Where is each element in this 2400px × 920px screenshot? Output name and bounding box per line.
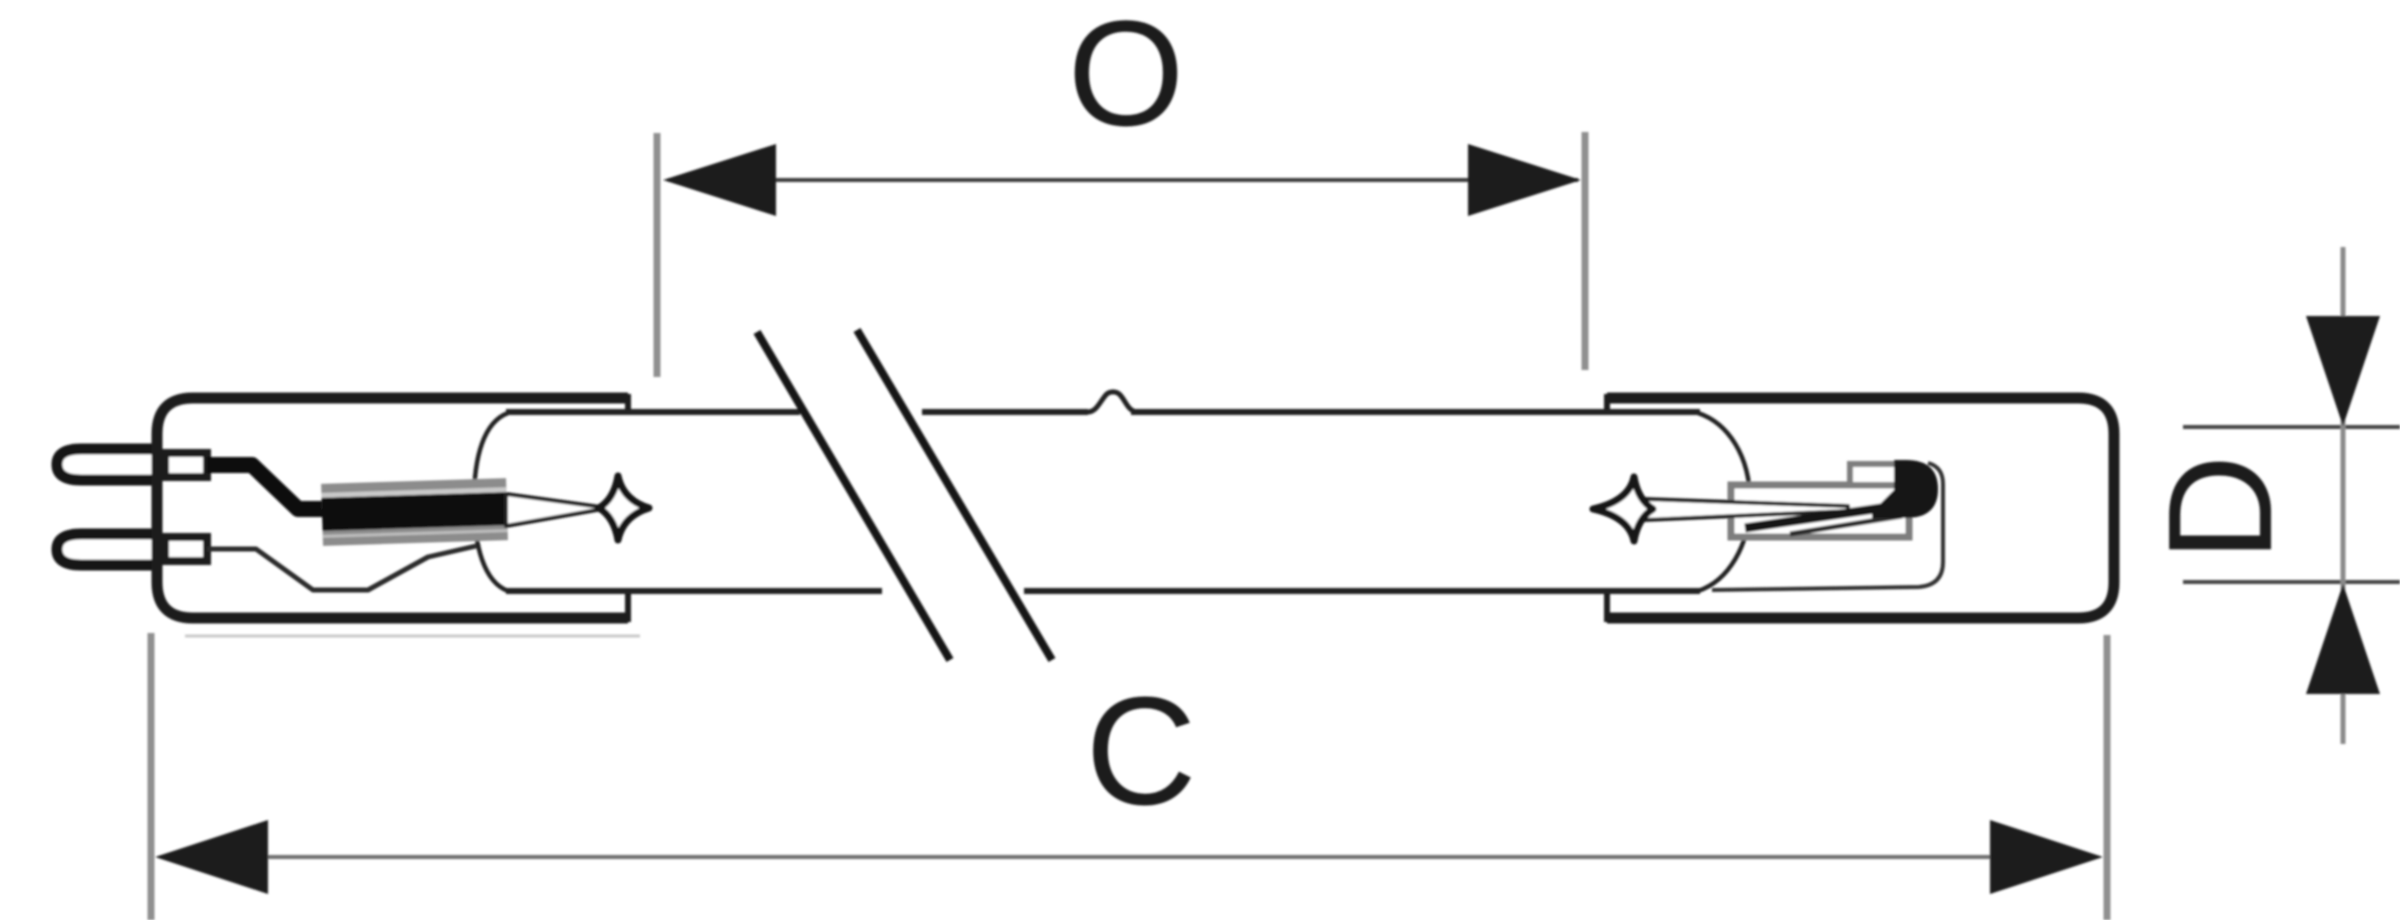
right electrode black tip — [1872, 460, 1938, 518]
left electrode coil — [321, 478, 508, 546]
left lead wire thick — [207, 465, 330, 509]
exhaust tip bump — [1088, 392, 1136, 412]
break line 1 — [757, 332, 950, 660]
pin seal rect lower — [165, 537, 207, 561]
tube top line left segment — [506, 409, 800, 415]
right pinch outline — [1712, 463, 1943, 590]
D dimension bottom line — [2183, 580, 2400, 584]
right electrode star — [1593, 477, 1653, 541]
C arrow left — [155, 820, 268, 894]
O extension line right — [1582, 132, 1589, 370]
C extension line left — [148, 633, 155, 920]
break line 2 — [857, 330, 1052, 660]
right cap outline — [1607, 398, 2114, 618]
D dimension top line — [2183, 425, 2400, 429]
left taper lines — [506, 494, 608, 526]
inner tube right dome — [1698, 413, 1750, 591]
C dimension line — [160, 855, 2098, 859]
left cap outline — [157, 398, 628, 618]
left support wire thin — [207, 546, 476, 590]
svg-text:C: C — [1085, 665, 1196, 837]
svg-text:D: D — [2138, 455, 2303, 562]
pin lower (left base) — [57, 534, 160, 565]
right cap top step — [1604, 394, 1610, 412]
C arrow right — [1990, 820, 2103, 894]
left cap bottom step — [625, 591, 631, 622]
pin upper (left base) — [57, 449, 160, 480]
right taper lines — [1645, 499, 1848, 520]
O extension line left — [654, 133, 661, 377]
right cap bottom step — [1604, 591, 1610, 622]
tube top line mid segment — [922, 409, 1088, 415]
svg-text:O: O — [1068, 0, 1185, 157]
D arrow top — [2306, 316, 2380, 426]
tube top line right segment — [1131, 409, 1700, 415]
O arrow left — [663, 144, 776, 216]
D vertical line — [2341, 247, 2346, 744]
tube bottom line left segment — [506, 588, 882, 594]
right crimp wire streaks — [1745, 507, 1888, 528]
C extension line right — [2104, 635, 2111, 920]
D arrow bottom — [2306, 584, 2380, 694]
tube bottom line right segment — [1024, 588, 1700, 594]
O arrow right — [1468, 144, 1581, 216]
inner tube left dome — [474, 413, 508, 591]
left cap top step — [625, 394, 631, 412]
shadow line under left cap — [185, 635, 640, 638]
right electrode crimp outer — [1731, 485, 1909, 537]
pin seal rect upper — [165, 453, 207, 477]
O dimension line — [668, 178, 1578, 182]
right crimp upper step — [1850, 464, 1902, 485]
left electrode star — [599, 476, 649, 540]
